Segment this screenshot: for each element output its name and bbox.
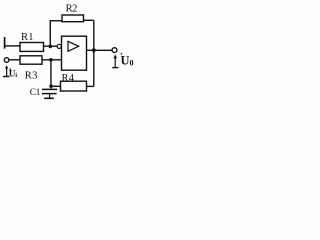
svg-text:R3: R3 — [25, 70, 38, 81]
svg-text:R1: R1 — [21, 32, 34, 43]
svg-text:R4: R4 — [62, 73, 75, 84]
svg-text:C1: C1 — [30, 88, 41, 98]
svg-text:R2: R2 — [66, 4, 78, 15]
